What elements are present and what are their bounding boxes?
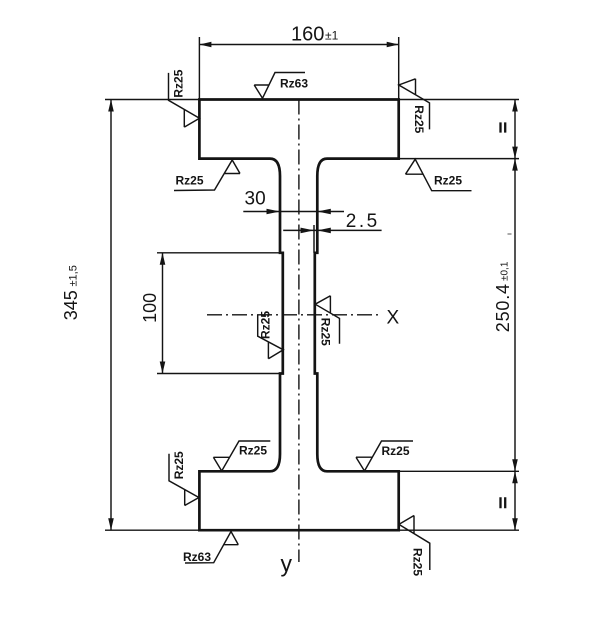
roughness symbol Rz25 top-left flange end xyxy=(169,73,200,127)
I-beam outline xyxy=(199,100,398,531)
arrowhead flange= top down xyxy=(512,147,518,159)
svg-text:Rz63: Rz63 xyxy=(280,77,308,91)
svg-text:y: y xyxy=(281,551,293,577)
svg-text:±1,5: ±1,5 xyxy=(68,265,80,286)
roughness symbol Rz25 bottom-right flange end xyxy=(399,516,430,571)
roughness symbol Rz25 top-right flange end xyxy=(399,79,430,130)
svg-text:Rz25: Rz25 xyxy=(319,318,333,346)
arrowhead 250.4 down xyxy=(512,459,518,471)
svg-text:±0,1: ±0,1 xyxy=(500,261,511,281)
dimension 160±1 line xyxy=(199,44,398,46)
svg-text:30: 30 xyxy=(245,189,266,210)
svg-text:Rz25: Rz25 xyxy=(382,444,410,458)
svg-text:Rz25: Rz25 xyxy=(411,548,425,576)
parallelism mark top xyxy=(501,122,506,132)
arrowhead 100 bottom xyxy=(160,362,166,374)
dimension 100 line xyxy=(162,253,164,374)
svg-text:Rz25: Rz25 xyxy=(258,311,272,339)
svg-text:±1: ±1 xyxy=(325,28,339,42)
arrowhead 160 left xyxy=(199,42,211,48)
svg-text:Rz25: Rz25 xyxy=(239,444,267,458)
dimension 30 line xyxy=(243,211,344,213)
dimension 345±1,5 line xyxy=(110,100,112,531)
roughness symbol Rz25 above bottom flange left xyxy=(213,441,270,471)
dimension 2.5 extension line xyxy=(313,225,315,253)
right side extension lines xyxy=(399,100,519,531)
arrowhead 30 right xyxy=(317,209,331,215)
horizontal centerline X-axis xyxy=(207,314,378,316)
arrowhead 160 right xyxy=(387,42,399,48)
arrowhead 2.5 right xyxy=(317,228,331,234)
svg-text:Rz25: Rz25 xyxy=(172,451,186,479)
arrowhead flange= bottom up xyxy=(512,471,518,483)
arrowhead 100 top xyxy=(160,253,166,265)
stray scan tick xyxy=(508,233,512,235)
arrowhead 345 bottom xyxy=(108,518,114,530)
arrowhead 250.4 up xyxy=(512,159,518,171)
svg-text:Rz25: Rz25 xyxy=(172,69,186,97)
svg-text:Rz25: Rz25 xyxy=(412,105,426,133)
dimension 160±1 extension lines xyxy=(199,37,398,100)
svg-text:250.4: 250.4 xyxy=(493,283,513,332)
roughness symbol Rz63 top flange xyxy=(254,73,305,99)
roughness symbol Rz25 web right xyxy=(315,296,339,344)
roughness symbol Rz25 web left xyxy=(258,315,284,359)
roughness symbol Rz25 under top flange left xyxy=(174,160,240,191)
dimension 345±1,5 extension lines xyxy=(105,100,199,531)
roughness symbol Rz25 bottom-left flange end xyxy=(169,454,199,506)
svg-text:160: 160 xyxy=(291,24,324,46)
dimension 100 extension lines xyxy=(157,253,283,374)
arrowhead flange= bottom down xyxy=(512,518,518,530)
svg-text:Rz63: Rz63 xyxy=(183,550,211,564)
svg-text:Rz25: Rz25 xyxy=(434,174,462,188)
svg-text:345: 345 xyxy=(61,290,81,320)
arrowhead flange= top up xyxy=(512,100,518,112)
arrowhead 345 top xyxy=(108,100,114,112)
parallelism mark bottom xyxy=(501,497,506,508)
dimension 250.4±0,1 line with flange = dims xyxy=(514,100,516,531)
svg-text:Rz25: Rz25 xyxy=(176,174,204,188)
vertical centerline y-axis xyxy=(298,100,300,563)
roughness symbol Rz25 above bottom flange right xyxy=(356,441,413,471)
svg-text:X: X xyxy=(387,308,400,329)
roughness symbol Rz63 bottom flange xyxy=(185,532,238,564)
dimension 2.5 line xyxy=(283,229,381,231)
svg-text:100: 100 xyxy=(140,293,160,323)
roughness symbol Rz25 under top flange right xyxy=(406,159,472,191)
arrowhead 2.5 left xyxy=(301,228,315,234)
arrowhead 30 left xyxy=(267,209,281,215)
svg-text:2.5: 2.5 xyxy=(346,211,380,232)
